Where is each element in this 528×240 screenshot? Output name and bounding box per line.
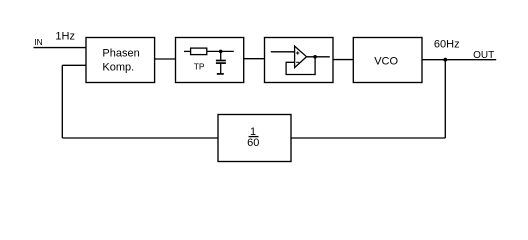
resistor R1 (TP internal) (191, 48, 207, 55)
node OUT label (473, 50, 494, 61)
wire capacitor stem upper (220, 51, 222, 59)
svg-text:IN: IN (34, 37, 43, 47)
junction node TP internal (219, 50, 223, 54)
label TP (194, 62, 205, 72)
block U5 divider 1/60 (218, 115, 291, 162)
wire feedback bottom right (291, 137, 445, 139)
wire TP internal output (207, 50, 234, 52)
value label 1Hz (55, 30, 75, 42)
wire capacitor stem lower (220, 64, 222, 73)
capacitor C1 (TP internal) (216, 61, 226, 64)
wire phase comparator to TP (155, 58, 176, 60)
wire buffer feedback loop (286, 57, 315, 75)
block U2 low-pass filter TP (176, 38, 244, 83)
svg-text:Phasen: Phasen (102, 48, 139, 60)
svg-text:1Hz: 1Hz (55, 30, 75, 42)
wire feedback bottom left (62, 137, 218, 139)
junction node buffer output (313, 55, 317, 59)
wire TP internal input (184, 50, 191, 52)
block U4 VCO (353, 38, 422, 83)
node IN label (34, 37, 43, 47)
ground terminal (TP internal) (217, 73, 224, 75)
svg-text:TP: TP (194, 62, 205, 72)
svg-text:60: 60 (247, 137, 259, 149)
wire IN input (34, 47, 87, 49)
junction node OUT (443, 58, 447, 62)
svg-text:OUT: OUT (473, 50, 494, 61)
wire buffer output (307, 56, 330, 58)
value label 60Hz (434, 39, 460, 51)
svg-text:VCO: VCO (374, 56, 398, 68)
wire OUT junction down (444, 60, 446, 138)
wire TP to buffer (244, 58, 265, 60)
wire feedback up left (61, 65, 63, 138)
block U3 buffer amplifier (265, 38, 334, 83)
block U1 phase comparator Phasen Komp. (86, 38, 155, 83)
svg-text:60Hz: 60Hz (434, 39, 460, 51)
wire VCO to OUT (422, 59, 496, 61)
svg-text:Komp.: Komp. (102, 61, 134, 73)
op-amp A1 (buffer internal) (295, 46, 307, 68)
wire buffer to VCO (333, 59, 353, 61)
wire buffer input (271, 51, 295, 53)
wire feedback to phase comparator (62, 64, 86, 66)
